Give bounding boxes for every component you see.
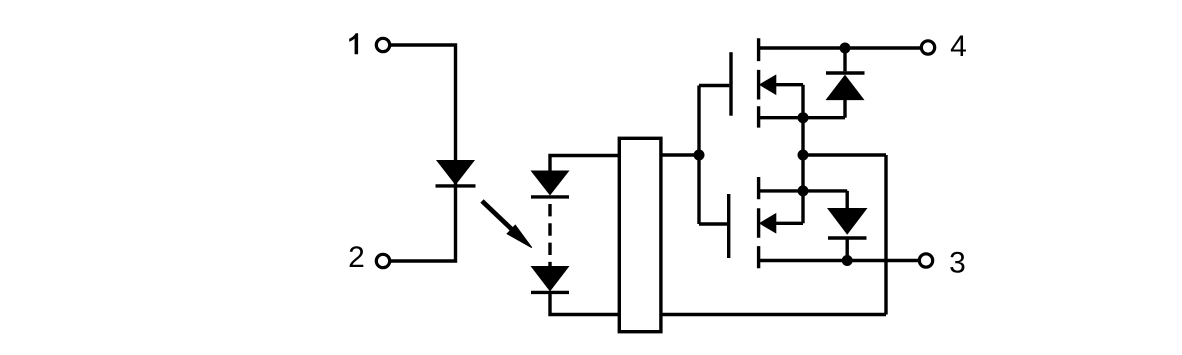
- transistor Q2 gate lead: [699, 222, 727, 225]
- transistor Q1 gate plate: [729, 52, 732, 115]
- LED D1 cathode bar: [436, 184, 476, 187]
- photodiode PD2 triangle: [532, 267, 569, 291]
- terminal circle pin 2: [376, 254, 389, 267]
- body diode D2 triangle: [827, 75, 864, 99]
- optical coupling arrow head: [507, 225, 532, 248]
- transistor Q1 source wire: [759, 116, 845, 119]
- svg-text:3: 3: [949, 246, 966, 279]
- transistor Q1 drain wire to pin 4: [759, 46, 920, 49]
- body diode D2 cathode wire: [843, 48, 846, 71]
- wire right rail vertical: [884, 155, 887, 315]
- terminal circle pin 4: [921, 41, 934, 54]
- wire bottom return to driver: [661, 313, 886, 316]
- body diode D3 cathode bar: [828, 236, 867, 239]
- transistor Q1 gate lead: [699, 84, 729, 87]
- dashed link between photodiodes: [548, 204, 551, 266]
- junction D3 at pin3 wire: [842, 255, 853, 266]
- wire photodiode stack bottom to driver: [550, 292, 618, 314]
- photodiode PD1 cathode bar: [531, 195, 569, 198]
- LED D1 anode triangle: [437, 161, 474, 185]
- wire pin1 to LED to pin2: [390, 45, 455, 261]
- transistor Q2 source wire: [759, 189, 848, 192]
- junction Q1 source: [798, 112, 809, 123]
- body diode D2 cathode bar: [826, 71, 865, 74]
- wire common node to right rail: [803, 153, 886, 156]
- transistor Q2 body arrow: [760, 214, 776, 233]
- wire common source vertical: [801, 85, 804, 224]
- terminal circle pin 1: [376, 38, 389, 51]
- transistor Q1 body wire: [774, 83, 803, 86]
- body diode D2 anode wire: [843, 100, 846, 118]
- driver block U1: [619, 138, 661, 331]
- wire driver output to gate node: [661, 153, 699, 156]
- junction body diode D2 at drain: [840, 43, 851, 54]
- junction gate node: [694, 150, 705, 161]
- transistor Q2 gate plate: [727, 194, 730, 258]
- transistor Q2 body wire: [774, 222, 803, 225]
- photodiode PD1 triangle: [532, 171, 569, 195]
- body diode D3 triangle: [828, 209, 867, 234]
- terminal circle pin 3: [919, 254, 932, 267]
- optical coupling arrow shaft: [482, 201, 512, 230]
- transistor Q1 body arrow: [760, 75, 776, 94]
- transistor Q2 drain wire to pin 3: [759, 259, 918, 262]
- wire gate bus vertical: [697, 86, 700, 225]
- wire photodiode stack top to driver: [550, 156, 618, 172]
- junction common source node: [798, 150, 809, 161]
- transistor Q2 channel segments: [757, 177, 760, 268]
- svg-text:4: 4: [950, 30, 967, 63]
- transistor Q1 channel segments: [757, 38, 760, 127]
- pin label 1: [349, 33, 358, 54]
- body diode D3 cathode wire: [846, 238, 849, 261]
- svg-text:2: 2: [348, 241, 365, 274]
- junction Q2 source: [798, 185, 809, 196]
- body diode D3 anode wire: [846, 191, 849, 209]
- photodiode PD2 cathode bar: [531, 291, 569, 294]
